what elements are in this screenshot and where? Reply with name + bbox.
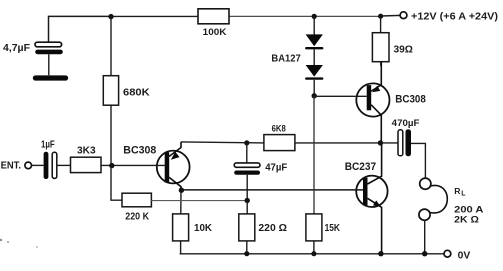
output jack bottom circle [419, 209, 430, 220]
svg-text:470µF: 470µF [392, 117, 420, 128]
svg-text:1µF: 1µF [41, 140, 55, 151]
svg-text:39Ω: 39Ω [394, 44, 413, 56]
svg-text:6K8: 6K8 [272, 124, 286, 134]
node D junction dot [109, 163, 114, 168]
wire node I down to 15K [313, 96, 315, 214]
svg-text:R: R [454, 186, 461, 196]
terminal 0V [444, 250, 451, 257]
output jack top circle [420, 178, 431, 189]
svg-text:ENT.: ENT. [1, 161, 22, 172]
node J junction dot (220R) [244, 251, 249, 256]
wire node B to node C [314, 15, 380, 17]
wire top rail node A to 100K left [111, 15, 198, 17]
wire 220R bottom to rail [246, 241, 248, 254]
svg-text:10K: 10K [194, 223, 213, 234]
svg-text:BA127: BA127 [271, 52, 300, 64]
resistor R-3K3 [71, 157, 102, 172]
svg-text:220 K: 220 K [125, 211, 149, 222]
wire 100K right to node B [229, 15, 314, 17]
resistor R-39R [372, 16, 389, 66]
resistor R-220R [239, 214, 255, 241]
node E junction dot [244, 140, 249, 145]
wire 6K8 right to node F [295, 142, 381, 144]
terminal +12V [400, 12, 407, 19]
transistor Q3 BC237 [356, 143, 387, 254]
scan speck [7, 241, 9, 243]
wire Q1 collector node G down to 10K [180, 190, 182, 214]
node I junction dot [312, 93, 317, 98]
node K junction dot (15K) [311, 251, 316, 256]
node F junction dot [378, 140, 383, 145]
capacitor C4 470uF [380, 129, 425, 178]
wire node G to Q3 base [181, 189, 363, 191]
svg-text:BC308: BC308 [123, 145, 156, 157]
svg-text:BC308: BC308 [395, 94, 426, 106]
wire 15K bottom to rail [313, 241, 315, 254]
node C junction dot [378, 14, 383, 19]
svg-text:100K: 100K [203, 27, 227, 37]
capacitor C2 1uF [44, 152, 57, 179]
wire ENT to C2 [32, 164, 44, 166]
transistor Q1 BC308 left [157, 142, 190, 190]
svg-text:3K3: 3K3 [77, 145, 96, 156]
svg-text:47µF: 47µF [265, 162, 287, 173]
diode D1 BA127 [305, 16, 323, 49]
svg-text:2K Ω: 2K Ω [454, 213, 479, 224]
resistor R-680K [103, 16, 118, 165]
diode D2 BA127 [305, 49, 323, 95]
wire node C to +12V terminal [381, 14, 400, 17]
capacitor C3 47uF [234, 143, 260, 201]
svg-text:BC237: BC237 [345, 161, 376, 173]
resistor R-6K8 [264, 135, 295, 151]
svg-text:4,7µF: 4,7µF [3, 43, 30, 54]
node G junction dot [179, 188, 184, 193]
wire 10K bottom to rail [180, 241, 182, 254]
wire 3K3 to node D to Q1 base [101, 164, 167, 166]
node B junction dot [312, 14, 317, 19]
node A junction dot [108, 14, 113, 19]
wire 220K right to node H [151, 200, 247, 202]
svg-text:+12V (+6 A +24V): +12V (+6 A +24V) [411, 11, 498, 22]
resistor R-15K [306, 214, 322, 241]
transistor Q2 BC308 right [356, 62, 389, 143]
wire jack bottom to rail [424, 220, 426, 254]
resistor R-100K [198, 9, 229, 24]
node L junction dot (Q3 emitter) [378, 251, 383, 256]
svg-text:220 Ω: 220 Ω [258, 223, 287, 234]
wire top rail left (corner above C1 to node A) [49, 16, 112, 42]
svg-text:680K: 680K [123, 88, 150, 99]
wire bottom rail [180, 253, 444, 255]
svg-text:L: L [461, 191, 466, 198]
resistor R-220K [122, 193, 151, 207]
wire Q1 emitter to 6K8 (node E) [181, 142, 264, 143]
ground bar below C1 [33, 75, 68, 80]
terminal ENT [25, 162, 32, 169]
output jack loop arc [430, 185, 447, 213]
svg-text:15K: 15K [325, 223, 341, 234]
wire node D down to 220K [111, 166, 122, 200]
wire node I to Q2 base [314, 95, 366, 97]
svg-text:0V: 0V [458, 250, 471, 261]
resistor R-10K [173, 214, 189, 241]
node M junction dot (jack) [422, 251, 427, 256]
wire C2 to 3K3 [57, 164, 71, 166]
wire node H to 220R [246, 201, 248, 214]
capacitor C1 4.7uF [35, 42, 63, 75]
node H junction dot [245, 198, 250, 203]
